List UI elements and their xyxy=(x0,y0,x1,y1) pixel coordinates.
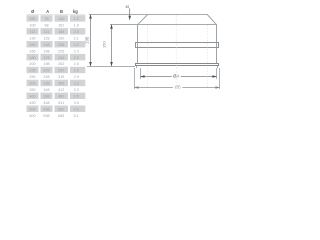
svg-text:4.2: 4.2 xyxy=(74,107,79,111)
svg-text:290: 290 xyxy=(58,69,64,73)
diameter B dim xyxy=(134,87,220,88)
svg-text:200: 200 xyxy=(29,62,35,66)
right dim line xyxy=(111,24,112,66)
svg-text:1.2: 1.2 xyxy=(74,17,79,21)
drawing xyxy=(87,14,220,89)
svg-text:180: 180 xyxy=(29,56,35,60)
svg-text:582: 582 xyxy=(58,107,64,111)
svg-text:111: 111 xyxy=(44,30,50,34)
right slant xyxy=(207,15,216,25)
table zebra rows xyxy=(27,15,86,112)
svg-text:298: 298 xyxy=(43,82,49,86)
svg-text:448: 448 xyxy=(43,101,49,105)
svg-text:78: 78 xyxy=(44,17,48,21)
svg-text:500: 500 xyxy=(29,107,35,111)
bottom rim xyxy=(135,63,219,64)
svg-text:450: 450 xyxy=(29,101,35,105)
svg-text:3.5: 3.5 xyxy=(74,94,79,98)
svg-text:3.2: 3.2 xyxy=(74,82,79,86)
svg-text:ØB: ØB xyxy=(175,85,181,90)
svg-text:223: 223 xyxy=(43,69,49,73)
svg-text:140: 140 xyxy=(58,17,64,21)
dia A arrows xyxy=(140,75,144,78)
svg-text:511: 511 xyxy=(58,101,64,105)
svg-text:158: 158 xyxy=(43,49,49,53)
svg-text:2.6: 2.6 xyxy=(74,69,79,73)
svg-text:128: 128 xyxy=(43,36,49,40)
svg-text:2.0: 2.0 xyxy=(74,30,79,34)
svg-text:665: 665 xyxy=(58,114,64,118)
ext lines for diameters xyxy=(140,68,141,79)
svg-text:398: 398 xyxy=(43,94,49,98)
svg-text:2.3: 2.3 xyxy=(74,49,79,53)
table header xyxy=(31,9,78,14)
svg-text:348: 348 xyxy=(43,88,49,92)
band xyxy=(135,42,219,43)
svg-text:2.9: 2.9 xyxy=(74,75,79,79)
svg-text:195: 195 xyxy=(84,36,89,44)
svg-text:148: 148 xyxy=(43,43,49,47)
svg-text:498: 498 xyxy=(43,107,49,111)
dia B arrows xyxy=(134,86,138,89)
table data xyxy=(29,17,78,118)
svg-text:Ø: Ø xyxy=(31,9,35,14)
svg-text:460: 460 xyxy=(58,94,64,98)
svg-text:208: 208 xyxy=(58,43,64,47)
left dim line xyxy=(90,14,91,66)
svg-text:100: 100 xyxy=(29,24,35,28)
svg-text:198: 198 xyxy=(43,62,49,66)
svg-text:262: 262 xyxy=(58,62,64,66)
left dim arrows xyxy=(89,14,92,18)
svg-text:161: 161 xyxy=(58,24,64,28)
svg-text:B: B xyxy=(60,9,63,14)
svg-text:240: 240 xyxy=(58,56,64,60)
svg-text:300: 300 xyxy=(29,82,35,86)
svg-text:225: 225 xyxy=(58,49,64,53)
svg-text:600: 600 xyxy=(29,114,35,118)
svg-text:1.9: 1.9 xyxy=(74,24,79,28)
svg-text:150: 150 xyxy=(102,40,107,47)
dia A label xyxy=(172,73,181,78)
svg-text:2.2: 2.2 xyxy=(74,43,79,47)
svg-text:178: 178 xyxy=(43,56,49,60)
walls xyxy=(137,25,138,63)
arrowheads xyxy=(89,8,220,89)
svg-text:365: 365 xyxy=(58,82,64,86)
svg-text:130: 130 xyxy=(29,36,35,40)
svg-text:2.5: 2.5 xyxy=(74,62,79,66)
svg-text:A: A xyxy=(46,9,49,14)
svg-text:3.9: 3.9 xyxy=(74,101,79,105)
diameter A dim xyxy=(140,76,217,77)
svg-text:ØA: ØA xyxy=(173,73,179,78)
skirt xyxy=(136,66,137,68)
svg-text:248: 248 xyxy=(43,75,49,79)
svg-text:5.1: 5.1 xyxy=(74,114,79,118)
hidden dashed verticals xyxy=(147,25,149,63)
bottom tick line xyxy=(87,66,135,67)
svg-text:2.1: 2.1 xyxy=(74,36,79,40)
svg-text:315: 315 xyxy=(58,75,64,79)
svg-text:400: 400 xyxy=(29,94,35,98)
svg-text:350: 350 xyxy=(29,88,35,92)
svg-text:250: 250 xyxy=(29,75,35,79)
svg-text:98: 98 xyxy=(44,24,48,28)
dia B label xyxy=(173,84,183,89)
svg-text:kg: kg xyxy=(73,9,78,14)
svg-text:186: 186 xyxy=(58,30,64,34)
svg-text:225: 225 xyxy=(29,69,35,73)
svg-text:45: 45 xyxy=(125,5,129,9)
svg-text:190: 190 xyxy=(58,36,64,40)
svg-text:160: 160 xyxy=(29,49,35,53)
svg-text:598: 598 xyxy=(43,114,49,118)
svg-text:150: 150 xyxy=(29,43,35,47)
right dim arrows xyxy=(110,24,113,28)
shoulder line + tick xyxy=(110,24,217,25)
svg-text:2.5: 2.5 xyxy=(74,56,79,60)
svg-text:412: 412 xyxy=(58,88,64,92)
svg-text:3.3: 3.3 xyxy=(74,88,79,92)
svg-text:113: 113 xyxy=(30,30,36,34)
cone top line + extension tick xyxy=(89,14,208,15)
svg-text:080: 080 xyxy=(29,17,35,21)
45 annotation arrow xyxy=(129,8,131,16)
left slant xyxy=(137,15,147,25)
